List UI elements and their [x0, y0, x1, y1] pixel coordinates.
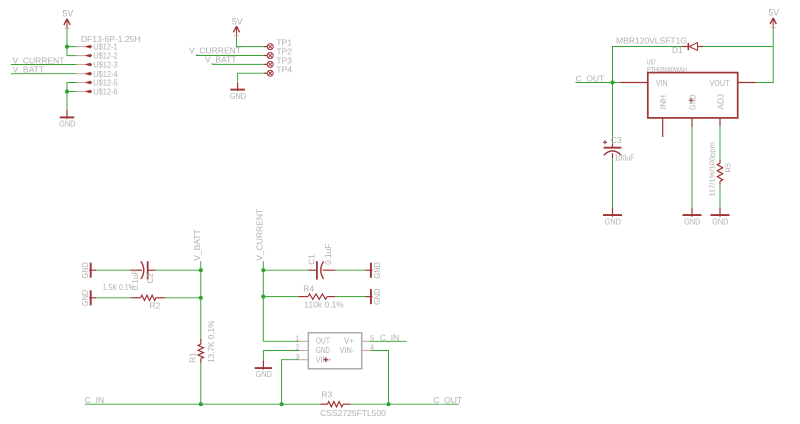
junction pin3/rail — [280, 402, 284, 406]
wire R2 to V_BATT net — [165, 297, 200, 299]
wire C1 to GND — [335, 269, 366, 271]
svg-text:110k 0.1%: 110k 0.1% — [304, 300, 344, 310]
pin 2 GND — [299, 350, 308, 352]
svg-text:GND: GND — [80, 290, 90, 306]
resistor R2 1.5K 0.1% — [130, 297, 140, 299]
pin VIN — [621, 82, 648, 84]
ground GND (op-amp) — [262, 361, 264, 370]
junction pin5/pin6 — [65, 89, 69, 93]
pin INH — [662, 118, 664, 137]
svg-text:GND: GND — [372, 262, 382, 278]
svg-text:GND: GND — [605, 217, 621, 227]
svg-text:V_BATT: V_BATT — [192, 229, 202, 261]
svg-text:C1: C1 — [308, 254, 317, 265]
supply 5V (testpoints) — [233, 26, 239, 37]
svg-text:R1: R1 — [189, 352, 198, 363]
svg-text:C_IN: C_IN — [85, 395, 104, 405]
junction 5V/pin1 — [65, 45, 69, 49]
svg-text:C_OUT: C_OUT — [576, 73, 605, 83]
testpoint TP1 — [264, 46, 267, 48]
svg-text:GND: GND — [712, 217, 728, 227]
pin U$12-3 — [77, 64, 85, 66]
wire 5V to TP1 — [237, 37, 264, 47]
wire node down to C3 — [612, 83, 614, 144]
ground GND (R4) — [370, 289, 372, 304]
ground GND (C1) — [370, 263, 372, 278]
pin U$12-1 — [77, 46, 85, 48]
svg-text:0.1uF: 0.1uF — [324, 244, 333, 265]
pin U$12-6 — [77, 91, 85, 93]
svg-text:GND: GND — [256, 369, 272, 379]
svg-text:100uF: 100uF — [615, 152, 635, 162]
pin U$12-2 — [77, 55, 85, 57]
wire pin5 C_IN — [370, 340, 406, 342]
svg-text:GND: GND — [372, 289, 382, 305]
svg-text:C2: C2 — [146, 273, 155, 284]
svg-text:INH: INH — [659, 95, 668, 109]
svg-text:D1: D1 — [672, 45, 683, 55]
wire R5 to GND — [719, 185, 721, 212]
svg-text:R2: R2 — [150, 301, 161, 311]
capacitor C2 0.1uF — [130, 269, 142, 271]
wire GND to R2 — [96, 297, 130, 299]
wire node to VIN stub — [613, 82, 621, 84]
svg-text:1.5K 0.1%: 1.5K 0.1% — [103, 282, 135, 292]
junction R2/V_BATT — [199, 296, 203, 300]
resistor R1 13.7K 0.1% — [200, 339, 202, 344]
svg-text:VIN-: VIN- — [340, 346, 355, 355]
junction C_OUT node — [610, 80, 614, 84]
ground GND (connector) — [66, 110, 68, 119]
resistor R4 110k 0.1% — [299, 296, 308, 298]
wire pin4 to C_IN rail — [370, 351, 388, 405]
svg-text:OUT: OUT — [316, 337, 330, 346]
wire GND to C2 — [96, 269, 130, 271]
svg-text:117/1%/100ppm: 117/1%/100ppm — [708, 142, 717, 197]
wire node up to diode D1 — [613, 47, 683, 83]
svg-text:ADJ: ADJ — [716, 94, 725, 109]
wire 5V down to VOUT — [756, 29, 774, 83]
wire pin1 to V_CURRENT — [263, 340, 299, 342]
wire V_CURRENT to pin3 — [11, 64, 77, 66]
svg-text:C_OUT: C_OUT — [433, 395, 462, 405]
svg-text:R4: R4 — [303, 284, 314, 294]
origin cross U$7 — [689, 98, 693, 102]
wire pin5 to junction — [67, 83, 77, 92]
ground GND (C2) — [90, 263, 92, 278]
svg-text:U$12-6: U$12-6 — [93, 87, 118, 97]
svg-text:5V: 5V — [768, 7, 779, 17]
wire C2 to V_BATT net — [156, 269, 201, 271]
wire to GND — [66, 92, 68, 111]
wire V_CURRENT to R4 — [263, 296, 298, 298]
wire V_CURRENT to C1 — [263, 269, 308, 271]
supply 5V (regulator output) — [770, 18, 776, 29]
svg-text:V_BATT: V_BATT — [205, 54, 237, 64]
ground GND (R2) — [90, 290, 92, 305]
wire V_CURRENT to TP2 — [196, 55, 264, 57]
pin 1 OUT — [299, 340, 308, 342]
svg-text:VIN: VIN — [656, 78, 668, 88]
ground GND (testpoints) — [237, 82, 239, 91]
wire pin1 junction to pin2 — [67, 47, 77, 56]
svg-text:5V: 5V — [232, 16, 243, 26]
wire C_OUT to node — [576, 82, 613, 84]
junction pin4/rail — [386, 402, 390, 406]
wire rail right to C_OUT — [350, 403, 459, 405]
svg-text:GND: GND — [59, 119, 75, 129]
svg-text:R3: R3 — [321, 389, 332, 399]
svg-text:V_CURRENT: V_CURRENT — [254, 209, 264, 261]
pin 3 VIN+ — [299, 359, 308, 361]
svg-text:GND: GND — [80, 262, 90, 278]
ground GND (R5) — [719, 208, 721, 217]
junction C1/V_CURRENT — [261, 268, 265, 272]
pin 5 V+ — [362, 340, 371, 342]
wire C3 to GND — [612, 159, 614, 212]
diode D1 MBR120VLSFT1G — [682, 46, 688, 48]
svg-text:CSS2725FTL500: CSS2725FTL500 — [320, 408, 386, 418]
svg-text:C3: C3 — [611, 135, 622, 145]
junction R4/V_CURRENT — [261, 295, 265, 299]
wire diode to 5V net — [703, 46, 773, 48]
pin U$12-5 — [77, 82, 85, 84]
testpoint TP4 — [264, 72, 267, 74]
svg-text:GND: GND — [689, 94, 698, 110]
wire 5V to U$12 pin1 — [67, 29, 77, 46]
origin cross U1 — [324, 358, 328, 362]
wire TP4 to GND — [238, 73, 264, 81]
svg-text:VOUT: VOUT — [710, 78, 731, 88]
wire C_IN rail left — [85, 403, 320, 405]
wire pin3 to C_IN rail — [282, 360, 299, 405]
supply 5V (connector) — [64, 19, 70, 30]
svg-text:GND: GND — [316, 346, 330, 355]
testpoint TP3 — [264, 63, 267, 65]
svg-text:GND: GND — [684, 217, 700, 227]
wire net V_BATT vertical — [200, 261, 202, 339]
wire V_BATT to TP3 — [212, 63, 264, 65]
wire ADJ to R5 — [719, 126, 721, 160]
svg-text:GND: GND — [230, 91, 246, 101]
wire junction to pin6 — [67, 91, 77, 93]
pin GND — [691, 118, 693, 127]
ground GND (U$7) — [691, 208, 693, 217]
capacitor C3 100uF — [612, 143, 614, 147]
svg-text:R5: R5 — [724, 163, 733, 173]
testpoint TP2 — [264, 55, 267, 57]
pin U$12-4 — [77, 73, 85, 75]
wire R1 to C_IN rail — [200, 363, 202, 404]
svg-text:5V: 5V — [63, 9, 74, 19]
junction R1/rail — [199, 402, 203, 406]
wire pin2 to GND — [263, 351, 299, 361]
svg-text:TP4: TP4 — [276, 64, 292, 74]
svg-text:V+: V+ — [344, 337, 354, 346]
junction C2/V_BATT — [199, 268, 203, 272]
svg-text:13.7K 0.1%: 13.7K 0.1% — [207, 321, 216, 363]
pin VOUT — [738, 82, 756, 84]
ground GND (C3) — [612, 208, 614, 217]
wire V_BATT to pin4 — [11, 73, 77, 75]
capacitor C1 0.1uF — [308, 269, 316, 271]
resistor R5 117/1%/100ppm — [719, 160, 721, 163]
resistor R3 CSS2725FTL500 (shunt) — [320, 403, 327, 405]
wire net V_CURRENT vertical — [262, 261, 264, 341]
op-amp U1 (current sense amplifier) — [308, 333, 361, 369]
pin ADJ — [719, 118, 721, 126]
wire R4 to GND — [335, 296, 366, 298]
pin 4 VIN- — [362, 350, 371, 352]
svg-text:V_BATT: V_BATT — [13, 65, 45, 75]
wire U$7 GND pin to GND — [691, 127, 693, 211]
